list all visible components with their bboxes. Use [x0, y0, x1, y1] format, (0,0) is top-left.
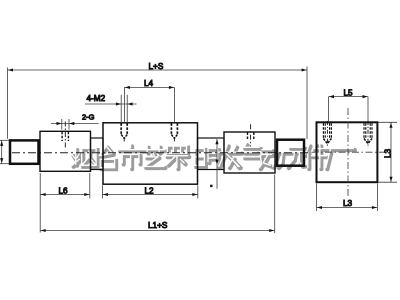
end view hole left centerline	[326, 121, 328, 148]
end view hole left drill point	[323, 139, 331, 144]
dimension L6 body1 length	[40, 173, 90, 233]
label 2-G ports callout	[51, 119, 99, 130]
centerline main shaft axis	[12, 152, 309, 154]
svg-text:L6: L6	[59, 186, 69, 195]
watermark char qi-air	[244, 144, 264, 170]
dimension L4 hole spacing	[124, 87, 174, 122]
watermark char ming-bright	[195, 149, 219, 167]
watermark char dong-move	[262, 150, 286, 168]
dimension L+S overall with stroke	[8, 67, 308, 140]
tiny label s	[210, 185, 212, 187]
end view square body	[317, 122, 378, 182]
body section 2	[224, 132, 275, 173]
watermark char shi-city	[119, 145, 145, 169]
dimension L3 end view height	[378, 122, 397, 182]
svg-text:L1+S: L1+S	[148, 221, 168, 230]
hole M2 B centerline	[173, 138, 175, 142]
dimension L5 end view hole spacing	[329, 97, 369, 122]
main block	[103, 123, 198, 184]
hole M2 A centerline	[123, 138, 125, 142]
dimension neck 2 height	[216, 139, 218, 189]
hole body2 centerline	[250, 124, 252, 146]
hole M2 A drill point	[121, 135, 127, 139]
watermark char fa	[219, 145, 242, 168]
end view hole right drill point	[364, 139, 372, 144]
tapped hole M2 A in main block	[121, 123, 127, 134]
watermark char yuan	[286, 147, 309, 168]
end view hole right centerline	[367, 121, 369, 148]
watermark char jian-part	[305, 145, 328, 169]
dimension left shaft diameter	[0, 140, 9, 163]
watermark char zhi	[141, 146, 167, 168]
svg-text:L2: L2	[145, 186, 155, 195]
watermark char fu	[166, 146, 189, 169]
end view horizontal centerline	[312, 151, 385, 153]
svg-text:2-G: 2-G	[82, 113, 95, 122]
tapped hole G in body 1	[62, 132, 68, 141]
end view tapped hole left	[323, 123, 331, 138]
shaft end left	[10, 140, 39, 163]
label 4-M2 tapped holes callout	[85, 95, 137, 123]
tapped hole M2 B in main block	[171, 123, 177, 134]
svg-text:L5: L5	[344, 89, 354, 98]
body section 1	[40, 131, 91, 171]
end view vertical centerline	[347, 108, 349, 196]
svg-text:L3: L3	[343, 199, 353, 208]
svg-text:4-M2: 4-M2	[87, 94, 106, 103]
watermark char yan-tobacco	[72, 149, 98, 167]
svg-text:L3: L3	[384, 148, 393, 158]
dimension L2 main block length	[102, 185, 197, 198]
neck 2	[198, 138, 225, 170]
tapped hole in body 2	[248, 133, 254, 141]
watermark char chang-factory	[326, 149, 355, 170]
neck 1	[91, 138, 104, 170]
watermark char tai	[99, 146, 116, 169]
hole M2 B drill point	[171, 135, 177, 139]
hole G centerline	[64, 122, 66, 148]
svg-text:L+S: L+S	[149, 62, 164, 71]
shaft end right	[277, 140, 304, 166]
svg-text:L4: L4	[144, 79, 154, 88]
end view tapped hole right	[364, 123, 372, 138]
dimension L3 end view width	[317, 184, 378, 212]
dimension L1+S body length	[40, 175, 275, 234]
